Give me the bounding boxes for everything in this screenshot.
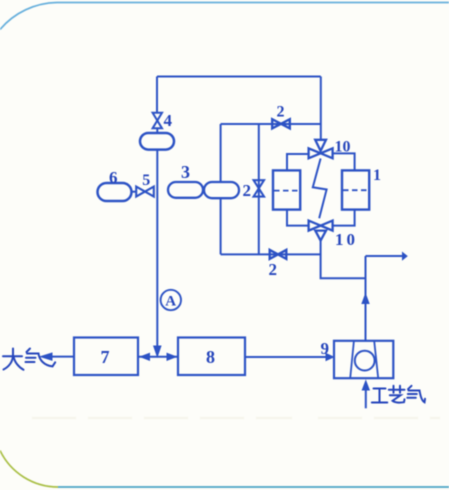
valve V4 (vertical bowtie)	[153, 113, 162, 129]
wire adsorber A bottom to valve10l	[287, 210, 309, 226]
arrow down into 7/8 junction	[154, 346, 161, 357]
工	[374, 388, 386, 390]
page border top line	[57, 2, 449, 4]
wire adsorber B bottom to valve10l	[333, 210, 355, 226]
大	[3, 355, 22, 357]
wire inner-loop left vertical (passes behind filter 3b)	[220, 124, 222, 254]
blower 9 right vane	[374, 341, 378, 378]
艺	[389, 389, 405, 391]
faint scan artifact dashed line	[32, 417, 440, 419]
气	[408, 386, 412, 389]
adsorber vessel A	[273, 170, 300, 209]
box 8	[178, 338, 245, 376]
adsorber vessel B	[342, 170, 369, 209]
svg-text:10: 10	[335, 230, 358, 249]
svg-text:10: 10	[335, 139, 351, 156]
adsorber A packing line (dashed)	[274, 190, 299, 192]
blower 9 left vane	[350, 341, 354, 378]
valve V2-top (horizontal bowtie)	[272, 119, 290, 128]
svg-text:9: 9	[321, 339, 330, 358]
wire inner-loop middle vertical	[258, 124, 260, 254]
wire exhaust line from box 7	[51, 356, 74, 358]
arrow up feed into blower	[362, 381, 369, 390]
wire main vertical down to junction arrow	[156, 150, 158, 346]
wire right header vertical	[320, 77, 322, 141]
page border top-left corner arc	[0, 3, 57, 30]
svg-text:1: 1	[373, 167, 381, 184]
tank 6 (capsule)	[98, 183, 132, 201]
wire valve4 to tank	[156, 128, 158, 133]
svg-text:8: 8	[206, 347, 215, 367]
svg-text:2: 2	[269, 260, 278, 279]
svg-text:4: 4	[164, 111, 173, 130]
valve V10-lower (3-way)	[309, 221, 333, 241]
text 工艺气 (process gas) hand-drawn glyphs	[372, 386, 425, 403]
svg-text:2: 2	[277, 104, 285, 121]
page border bottom line (teal)	[58, 486, 449, 488]
page border bottom-left corner arc (green)	[0, 451, 58, 488]
text 大气 (atmosphere) hand-drawn glyphs	[3, 349, 55, 370]
wire product line out	[366, 255, 403, 257]
svg-text:5: 5	[142, 172, 150, 189]
wire riser from blower to product line	[365, 256, 367, 341]
valve V5 (horizontal bowtie)	[136, 187, 154, 197]
valve V10-upper (3-way)	[309, 140, 333, 159]
valve V2-left (vertical bowtie)	[254, 180, 264, 196]
wire tank6 to valve5	[132, 191, 137, 193]
arrow into box 7	[141, 353, 150, 360]
wire feed gas inlet	[365, 390, 367, 408]
wire top header	[157, 76, 321, 78]
wire between box 7 and box 8	[138, 356, 178, 358]
blower 9 body	[334, 341, 393, 378]
box 7	[74, 338, 138, 376]
arrow into blower 9	[326, 354, 334, 361]
adsorber B packing line (dashed)	[343, 189, 368, 191]
wire box 8 to blower 9	[245, 356, 326, 358]
filter 3b (capsule)	[204, 182, 239, 198]
svg-text:A: A	[165, 294, 176, 310]
arrow into box 8	[167, 353, 176, 360]
svg-text:6: 6	[109, 168, 118, 187]
instrument bubble A	[161, 290, 181, 310]
wire header left drop to valve 4	[156, 77, 158, 113]
lightning zigzag between adsorbers	[313, 159, 327, 219]
svg-text:7: 7	[101, 347, 110, 367]
arrow left to atmosphere	[41, 353, 53, 360]
tank (capsule) below valve 4	[140, 133, 174, 150]
wire inner-loop bottom horizontal	[221, 253, 321, 255]
wire inner-loop top horizontal	[221, 123, 321, 125]
svg-text:2: 2	[243, 181, 252, 200]
wire valve10u left port to adsorber A	[287, 154, 309, 170]
valve V2-bottom (horizontal bowtie)	[270, 250, 287, 259]
arrow up on riser	[362, 294, 369, 304]
气	[27, 349, 31, 353]
wire valve10u right port to adsorber B	[333, 153, 355, 170]
blower 9 impeller circle	[355, 351, 375, 371]
wire valve10l stem down and over to riser	[321, 240, 366, 278]
svg-text:3: 3	[181, 162, 190, 182]
filter 3a (capsule)	[168, 182, 203, 198]
arrow right product out	[403, 253, 408, 260]
